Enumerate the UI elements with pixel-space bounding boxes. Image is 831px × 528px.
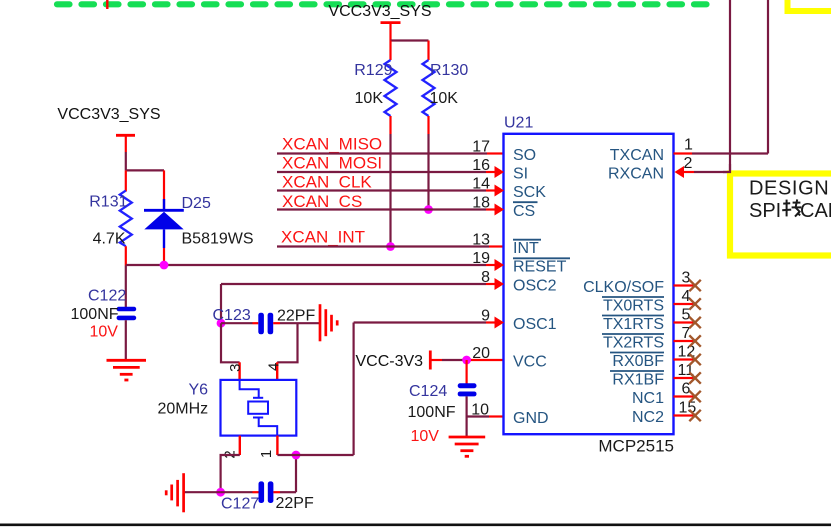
wire up to OSC1 level: [353, 323, 355, 456]
svg-text:OSC2: OSC2: [513, 278, 557, 295]
wire GND pin10: [467, 415, 489, 417]
pin names U21 left column: [513, 147, 567, 427]
svg-text:XCAN_CS: XCAN_CS: [282, 192, 362, 211]
svg-text:INT: INT: [513, 240, 539, 257]
pin numbers U21 left: [471, 139, 490, 419]
svg-text:B5819WS: B5819WS: [182, 231, 254, 248]
wire OSC2 drop to C123: [220, 284, 222, 323]
svg-text:RX1BF: RX1BF: [612, 372, 664, 389]
wire XCAN_MOSI: [277, 171, 486, 173]
wire XCAN_CS: [277, 208, 486, 210]
wire C122 to ground: [125, 320, 127, 359]
svg-text:TXCAN: TXCAN: [610, 147, 664, 164]
power symbol VCC3V3_SYS (left): [57, 106, 160, 152]
ground symbol (rotated, left of C127): [166, 473, 183, 512]
svg-text:1: 1: [684, 137, 693, 154]
pin numbers U21 right: [678, 137, 697, 417]
wire split to D25 anode-top: [126, 169, 164, 171]
capacitor C123: [213, 307, 316, 335]
wire TXCAN pin1: [674, 152, 693, 154]
wire OSC1 pin9 horizontal: [354, 321, 486, 323]
junction C127/ground/XTAL2: [216, 488, 225, 497]
svg-text:10K: 10K: [430, 90, 459, 107]
svg-text:10V: 10V: [90, 324, 119, 341]
svg-text:VCC3V3_SYS: VCC3V3_SYS: [57, 106, 160, 123]
svg-text:19: 19: [472, 250, 490, 267]
wire XCAN_MISO: [277, 152, 487, 154]
svg-text:3: 3: [227, 364, 244, 372]
red power stub tick at top: [106, 0, 108, 9]
svg-text:NC2: NC2: [632, 409, 664, 426]
svg-text:4.7K: 4.7K: [93, 231, 126, 248]
diode D25 (B5819WS): [144, 170, 254, 265]
svg-text:MCP2515: MCP2515: [598, 437, 674, 456]
svg-text:SCK: SCK: [513, 184, 546, 201]
hanzi zhuan drawn as strokes: [782, 199, 801, 216]
svg-text:14: 14: [472, 176, 490, 193]
svg-text:SI: SI: [513, 166, 528, 183]
svg-text:Y6: Y6: [189, 382, 209, 399]
svg-text:10V: 10V: [411, 428, 440, 445]
resistor R131: [89, 170, 132, 265]
svg-text:R129: R129: [354, 62, 392, 79]
svg-text:4: 4: [266, 363, 283, 371]
svg-text:1: 1: [258, 450, 275, 458]
wire power rail to R129/R130 tops: [391, 39, 429, 41]
svg-text:XCAN_MISO: XCAN_MISO: [282, 135, 382, 154]
wire OSC2 pin8 horizontal: [221, 283, 486, 285]
ground symbol (C124): [449, 437, 486, 456]
junction XTAL1/C127/OSC1: [292, 451, 301, 460]
no-connect stub pin4: [674, 303, 696, 305]
svg-text:13: 13: [472, 232, 490, 249]
svg-text:OSC1: OSC1: [513, 316, 557, 333]
no-connect stub pin11: [674, 377, 696, 379]
svg-text:XCAN_MOSI: XCAN_MOSI: [282, 153, 382, 172]
svg-text:11: 11: [678, 362, 695, 379]
wire power drop to R131/D25 split: [125, 152, 127, 170]
green dashed boundary line: [57, 1, 712, 7]
wire XCAN_CLK: [277, 189, 486, 191]
svg-text:CLKO/SOF: CLKO/SOF: [583, 279, 664, 296]
no-connect stub pin7: [674, 340, 696, 342]
pin name overbars (active low): [513, 202, 664, 371]
svg-text:9: 9: [481, 308, 490, 325]
svg-text:22PF: 22PF: [276, 495, 314, 512]
wire C127 right up to OSC1 node: [295, 455, 297, 492]
wire to rotated ground (bottom left): [185, 491, 221, 493]
resistor R130: [423, 41, 469, 135]
svg-text:XCAN_CLK: XCAN_CLK: [282, 172, 372, 191]
wire RXCAN corner over yellow box: [723, 164, 730, 172]
wire R129 pull-up to XCAN_INT: [389, 134, 391, 247]
power symbol VCC3V3_SYS (top): [328, 3, 431, 41]
resistor R129: [354, 41, 396, 135]
svg-text:C123: C123: [213, 307, 251, 324]
yellow annotation box fragment (top right corner): [788, 0, 831, 11]
wire TXCAN vertical (net to upper sheet): [767, 0, 769, 154]
svg-text:16: 16: [472, 157, 490, 174]
no-connect stub pin3: [674, 284, 696, 286]
wire XCAN_INT: [277, 245, 489, 247]
svg-text:GND: GND: [513, 410, 549, 427]
svg-text:VCC: VCC: [513, 354, 547, 371]
svg-text:RX0BF: RX0BF: [612, 353, 664, 370]
wire node R131/D25 to RESET pin19: [126, 264, 486, 266]
svg-text:NC1: NC1: [632, 390, 664, 407]
svg-text:100NF: 100NF: [408, 404, 456, 421]
wire junction down to XTAL pin3: [221, 323, 240, 362]
svg-text:TX2RTS: TX2RTS: [603, 335, 664, 352]
svg-text:U21: U21: [504, 115, 533, 132]
svg-text:8: 8: [481, 269, 490, 286]
svg-text:2: 2: [684, 155, 693, 172]
wire C123 right down to XTAL pin4: [277, 323, 297, 362]
wire RXCAN pin2 with input arrow: [675, 166, 685, 178]
capacitor C124: [408, 360, 477, 445]
svg-text:C124: C124: [409, 383, 447, 400]
junction R129/XCAN_INT: [386, 242, 395, 251]
wire XTAL pin2 to C127 left node: [221, 455, 240, 492]
IC U21 (MCP2515) body: [504, 115, 675, 456]
no-connect stub pin15: [674, 414, 696, 416]
junction R130/XCAN_CS: [424, 205, 433, 214]
svg-text:20MHz: 20MHz: [158, 401, 209, 418]
svg-text:18: 18: [472, 195, 490, 212]
wire XTAL pin1 node across: [277, 454, 353, 456]
svg-text:TX0RTS: TX0RTS: [603, 298, 664, 315]
svg-text:C122: C122: [88, 288, 126, 305]
ground symbol (C122): [107, 360, 147, 380]
power symbol VCC-3V3: [356, 351, 443, 371]
junction D25 anode on RESET net: [160, 261, 169, 270]
no-connect stub pin12: [674, 358, 696, 360]
wire C123 right to rotated ground: [298, 322, 320, 324]
pin input arrows (left): [495, 166, 505, 329]
wire RXCAN vertical (net to upper sheet): [729, 0, 731, 172]
junction OSC2/C123/XTAL3: [217, 319, 226, 328]
no-connect X marks: [689, 280, 701, 421]
svg-text:CAN: CAN: [800, 200, 831, 222]
junction VCC/C124: [462, 356, 471, 365]
pin names U21 right column: [583, 147, 664, 426]
bottom sheet border line: [0, 523, 831, 526]
crystal Y6 20MHz: [158, 362, 297, 458]
wire node down to C122: [125, 266, 127, 308]
svg-text:SPI: SPI: [749, 200, 781, 222]
svg-text:10: 10: [471, 402, 489, 419]
svg-text:22PF: 22PF: [277, 307, 315, 324]
svg-text:VCC3V3_SYS: VCC3V3_SYS: [328, 3, 431, 20]
svg-text:10K: 10K: [355, 90, 384, 107]
svg-text:SO: SO: [513, 147, 536, 164]
svg-text:17: 17: [472, 139, 490, 156]
ground symbol (rotated, right of C123): [320, 304, 337, 341]
no-connect stub pin5: [674, 321, 696, 323]
yellow annotation box DESIGN/SPI-CAN: [730, 174, 831, 256]
svg-text:20: 20: [472, 345, 490, 362]
svg-text:3: 3: [682, 270, 691, 287]
capacitor C122: [71, 288, 137, 341]
svg-text:D25: D25: [182, 195, 211, 212]
svg-text:DESIGN: DESIGN: [749, 178, 829, 200]
svg-text:RXCAN: RXCAN: [608, 166, 664, 183]
svg-text:TX1RTS: TX1RTS: [603, 316, 664, 333]
wire VCC-3V3 to chip pin20: [442, 359, 467, 361]
svg-text:RESET: RESET: [513, 259, 567, 276]
svg-text:C127: C127: [221, 496, 259, 513]
svg-text:VCC-3V3: VCC-3V3: [356, 353, 424, 370]
svg-text:CS: CS: [513, 203, 535, 220]
svg-text:R130: R130: [430, 62, 468, 79]
capacitor C127: [221, 481, 314, 512]
svg-text:R131: R131: [89, 194, 127, 211]
svg-text:XCAN_INT: XCAN_INT: [281, 228, 365, 247]
wire R130 pull-up to XCAN_CS: [427, 134, 429, 210]
svg-text:100NF: 100NF: [71, 306, 119, 323]
no-connect stub pin6: [674, 395, 696, 397]
